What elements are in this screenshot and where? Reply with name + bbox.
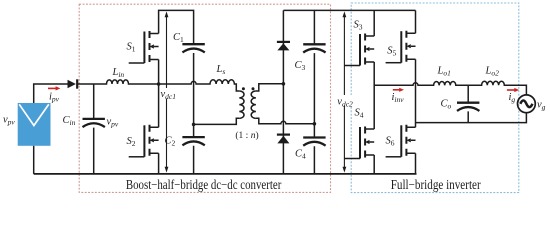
svg-text:Boost−half−bridge dc−dc conver: Boost−half−bridge dc−dc converter xyxy=(126,177,282,192)
svg-text:Full−bridge inverter: Full−bridge inverter xyxy=(391,177,482,192)
svg-text:(1 : n): (1 : n) xyxy=(235,130,258,141)
